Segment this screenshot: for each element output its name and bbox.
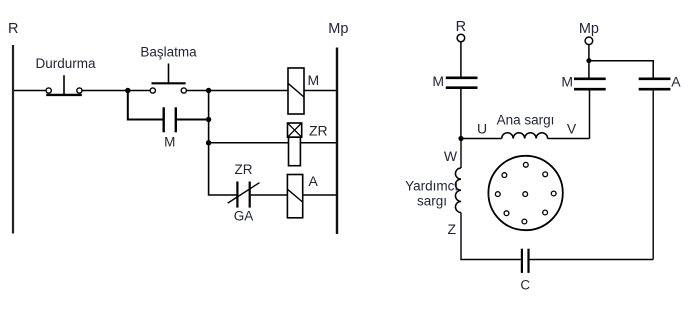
junction node (sub-rail / M contact)	[206, 117, 211, 122]
wire (Başlatma to node)	[186, 90, 208, 92]
svg-text:R: R	[456, 19, 466, 35]
junction node (rung / M-contact branch)	[125, 88, 130, 93]
wire (contact M to sub-rail)	[177, 119, 209, 121]
svg-text:Durdurma: Durdurma	[35, 56, 96, 71]
wire (R rail to Durdurma)	[14, 90, 46, 92]
wire (sub-rail corner to contact GA)	[209, 193, 237, 196]
svg-text:Ana sargı: Ana sargı	[497, 113, 555, 128]
svg-text:Z: Z	[448, 221, 457, 237]
contactor coil A	[287, 173, 318, 218]
svg-text:Mp: Mp	[328, 21, 348, 37]
wire (main winding to node V)	[548, 138, 590, 140]
wire (terminal R down to contact M)	[460, 42, 462, 77]
R rail (left vertical supply line)	[12, 45, 14, 234]
svg-text:ZR: ZR	[235, 162, 253, 177]
wire (node to coil M)	[209, 90, 288, 92]
pushbutton Başlatma (NO start button)	[140, 44, 197, 93]
junction node (rung / sub-rail)	[206, 88, 211, 93]
contact A (power contact, aux branch)	[639, 74, 682, 90]
Mp rail (right vertical neutral line)	[336, 48, 338, 235]
wire (sub-rail to timer coil ZR)	[209, 142, 289, 144]
wire (node U down to node W)	[460, 139, 462, 169]
svg-text:M: M	[308, 72, 320, 88]
svg-text:V: V	[567, 121, 577, 137]
junction node (Mp split)	[586, 58, 591, 63]
svg-text:sargı: sargı	[417, 193, 447, 208]
wire (node V riser to contact M)	[589, 89, 591, 138]
pushbutton Durdurma (NC stop button)	[35, 56, 96, 95]
junction node (sub-rail / ZR branch)	[206, 140, 211, 145]
terminal Mp (open circle)	[585, 37, 593, 45]
wire (terminal Mp down to junction)	[588, 45, 590, 78]
svg-text:A: A	[309, 173, 319, 189]
wire (contact A down the right side)	[652, 89, 654, 259]
svg-text:U: U	[477, 121, 487, 137]
contact ZR/GA (NC timed contact)	[228, 162, 260, 224]
wire (junction to contact A branch)	[589, 61, 653, 78]
wire (Durdurma to node)	[82, 90, 128, 92]
motor body (rotor circle with cage dots)	[488, 156, 562, 230]
contact M (power contact in R line)	[432, 73, 477, 89]
svg-text:ZR: ZR	[309, 123, 328, 139]
svg-text:Yardımcı: Yardımcı	[405, 179, 458, 194]
wire (node to Başlatma)	[128, 90, 150, 92]
contact M (power contact in Mp line)	[561, 74, 605, 90]
inductor Yardımcı sargı (auxiliary winding)	[405, 168, 461, 212]
contactor coil M	[288, 68, 319, 114]
wire (contact GA to coil A)	[251, 194, 288, 196]
wire (branch down from node)	[128, 91, 163, 120]
svg-text:M: M	[432, 73, 444, 89]
wire (capacitor to right corner)	[530, 259, 654, 261]
svg-text:Mp: Mp	[579, 21, 599, 37]
wire (coil M to Mp rail)	[304, 90, 337, 92]
wire (contact M down to node U)	[460, 89, 462, 139]
junction node U	[458, 136, 463, 141]
wire (coil A to Mp rail)	[303, 194, 337, 196]
svg-text:A: A	[671, 74, 681, 90]
svg-text:M: M	[561, 74, 573, 90]
terminal R (open circle)	[457, 34, 465, 42]
svg-text:Başlatma: Başlatma	[140, 44, 197, 59]
wire (node U to main winding)	[461, 138, 502, 140]
svg-text:M: M	[164, 135, 175, 150]
wire (coil ZR to Mp rail)	[300, 142, 337, 144]
svg-text:C: C	[520, 278, 530, 293]
sub-rail wire (vertical branch line)	[208, 91, 210, 196]
inductor Ana sargı (main winding)	[497, 113, 555, 139]
timer coil ZR	[288, 123, 328, 166]
capacitor C	[520, 249, 530, 293]
wire (winding Z down and along bottom to capacitor)	[461, 213, 521, 260]
svg-text:GA: GA	[234, 209, 254, 224]
contact M (NO holding contact)	[164, 107, 176, 149]
svg-text:W: W	[444, 148, 458, 164]
svg-text:R: R	[8, 21, 18, 37]
